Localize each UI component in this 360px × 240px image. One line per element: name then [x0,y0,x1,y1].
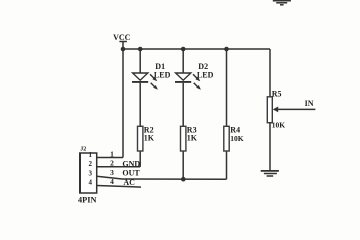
pin 2 wire GND [97,166,141,168]
node VCC junction at D1 branch [138,47,143,52]
node VCC junction at D2 branch [181,47,186,52]
wire OUT net line [97,176,227,179]
pin numbers inside connector [88,151,92,187]
wire R5 wiper to IN [278,108,316,110]
node VCC junction at pin-1 riser [121,47,126,52]
wire D2 branch top [182,49,184,73]
wire D1 to R2 [139,83,141,127]
svg-text:AC: AC [123,178,135,187]
svg-text:1: 1 [110,149,114,158]
svg-text:GND: GND [122,159,140,168]
node VCC junction at R4 branch [224,47,229,52]
pin 1 wire to VCC [97,49,123,158]
VCC power symbol [119,42,127,50]
node OUT junction dot [181,177,186,182]
svg-text:10K: 10K [230,134,244,143]
svg-text:2: 2 [88,160,92,168]
wire pot feed down [269,49,271,97]
svg-text:LED: LED [154,70,171,79]
LED D2 [175,73,199,88]
svg-text:2: 2 [110,159,114,168]
svg-text:3: 3 [110,168,114,177]
svg-text:IN: IN [305,99,314,108]
svg-text:OUT: OUT [122,169,140,178]
svg-text:3: 3 [88,170,92,178]
svg-text:4PIN: 4PIN [78,196,96,205]
svg-text:J2: J2 [80,147,86,153]
ground bottom [261,171,279,176]
svg-text:LED: LED [197,70,214,79]
resistor R2 [138,126,143,151]
svg-text:1: 1 [88,151,92,159]
LED D2 emission arrowheads [195,77,201,90]
LED D1 emission arrowheads [152,77,158,90]
svg-text:4: 4 [88,179,92,187]
connector J2 4PIN [80,153,97,193]
svg-text:1K: 1K [144,134,155,143]
wire D2 to R3 [182,83,184,127]
wire pot to ground [269,123,271,171]
wire R4 to OUT line [226,151,228,179]
wire R4 branch [226,49,228,126]
svg-text:10K: 10K [272,121,286,130]
wire D1 branch top [139,49,141,73]
svg-text:R5: R5 [272,90,282,99]
svg-text:4: 4 [110,177,114,186]
wire top rail [123,48,270,50]
resistor R3 [181,126,186,151]
ground top (clipped at image top) [273,1,291,5]
potentiometer R5 [267,97,278,123]
svg-text:VCC: VCC [113,33,131,42]
svg-text:1K: 1K [187,134,198,143]
wire R3 to OUT line [182,151,184,179]
resistor R4 [224,126,229,151]
LED D1 [132,73,156,88]
pin designators outside connector [110,149,114,186]
wire R2 to GND line [139,151,141,167]
pin 4 wire AC [97,186,141,188]
